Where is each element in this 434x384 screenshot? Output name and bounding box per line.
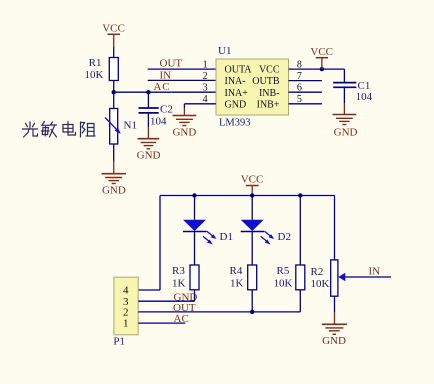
ground GND (below C1)	[333, 103, 358, 139]
svg-text:10K: 10K	[274, 278, 293, 290]
wire rail to D1	[194, 196, 196, 220]
wire IN to U1 pin2	[148, 79, 216, 81]
wire R4 to OUT net	[251, 290, 253, 312]
svg-text:GND: GND	[334, 127, 358, 139]
potentiometer R2	[311, 260, 346, 296]
wire pin 5 stub	[289, 103, 322, 105]
wire R3 to GND net	[194, 290, 196, 301]
junction dot rail D1	[192, 193, 196, 197]
resistor R5	[274, 265, 305, 290]
svg-text:GND: GND	[322, 335, 346, 347]
power VCC (top-left)	[102, 22, 125, 47]
svg-text:2: 2	[123, 307, 129, 319]
svg-text:2: 2	[203, 71, 208, 82]
svg-text:GND: GND	[172, 126, 196, 138]
svg-text:R4: R4	[230, 265, 243, 277]
svg-text:OUT: OUT	[160, 58, 183, 70]
ground GND (below C2)	[137, 127, 161, 161]
svg-text:INB+: INB+	[257, 99, 280, 110]
wire rail to D2	[251, 196, 253, 220]
svg-text:GND: GND	[225, 99, 247, 110]
svg-text:GND: GND	[102, 185, 126, 197]
power VCC (above pin 8)	[310, 46, 333, 69]
svg-text:10K: 10K	[85, 69, 104, 81]
op-amp U1 LM393	[216, 45, 289, 129]
ground GND (below R2)	[322, 312, 347, 347]
wire rail to R2	[334, 196, 336, 260]
wire pin 6 stub	[289, 91, 322, 93]
svg-text:4: 4	[123, 285, 129, 297]
wire R1 bottom to node	[113, 81, 115, 109]
svg-text:P1: P1	[113, 336, 125, 348]
resistor R4	[230, 265, 257, 290]
svg-text:IN: IN	[369, 266, 381, 278]
svg-text:3: 3	[203, 83, 208, 94]
svg-text:OUTA: OUTA	[225, 65, 253, 76]
junction dot pin8/VCC	[320, 67, 324, 71]
svg-text:INB-: INB-	[259, 88, 280, 99]
svg-text:R3: R3	[172, 265, 185, 277]
wire VCC to R1	[113, 47, 115, 58]
junction dot rail R5	[298, 193, 302, 197]
svg-text:AC: AC	[174, 313, 189, 325]
wire R2 to GND	[334, 296, 336, 312]
svg-text:VCC: VCC	[310, 46, 333, 58]
wire U1 pin8 to C1 (VCC net)	[289, 68, 345, 70]
ground GND (below N1)	[102, 161, 126, 197]
connector P1	[113, 277, 138, 347]
wire D2 to R4	[251, 232, 253, 266]
capacitor C2	[139, 92, 173, 127]
wire node to U1 pin3 (AC net)	[114, 91, 216, 93]
svg-text:D2: D2	[278, 231, 291, 243]
wire P1 pin2 OUT net	[138, 311, 300, 313]
svg-text:U1: U1	[218, 45, 231, 57]
LED D2	[241, 220, 291, 245]
svg-text:C2: C2	[160, 104, 173, 116]
svg-text:VCC: VCC	[259, 65, 280, 76]
svg-text:VCC: VCC	[102, 22, 125, 34]
wire R5 to OUT net	[299, 290, 301, 312]
wire P1 pin1 AC net	[138, 322, 185, 324]
wire U1 pin4 to GND	[184, 104, 216, 108]
ground GND (U1 pin4)	[172, 108, 196, 138]
svg-text:INA-: INA-	[225, 76, 246, 87]
wire OUT to U1 pin1	[148, 68, 216, 70]
wire D1 to R3	[194, 232, 196, 266]
svg-text:IN: IN	[160, 69, 172, 81]
junction dot R4/OUT	[250, 310, 254, 314]
wire pin 7 stub	[289, 80, 322, 82]
wire P1 pin3 GND net	[138, 300, 194, 302]
svg-text:104: 104	[356, 91, 373, 103]
svg-text:104: 104	[150, 116, 167, 128]
capacitor C1	[333, 69, 372, 103]
junction dot rail D2	[250, 193, 254, 197]
wire IN to R2 wiper	[345, 276, 391, 278]
svg-text:OUT: OUT	[173, 302, 196, 314]
svg-text:N1: N1	[124, 119, 137, 131]
svg-text:R5: R5	[277, 265, 290, 277]
svg-text:OUTB: OUTB	[252, 76, 280, 87]
junction dot C2 tap	[146, 90, 150, 94]
svg-text:R2: R2	[311, 266, 324, 278]
wire VCC rail	[160, 195, 335, 197]
svg-text:D1: D1	[220, 231, 233, 243]
junction dot node AC	[112, 90, 116, 94]
svg-text:1: 1	[123, 318, 129, 330]
power VCC (bottom section)	[241, 173, 264, 195]
svg-text:10K: 10K	[311, 278, 330, 290]
svg-text:1K: 1K	[230, 278, 244, 290]
label 光敏电阻 (photoresistor, drawn glyphs)	[23, 122, 96, 138]
wire N1 to GND	[113, 144, 115, 161]
photoresistor N1	[105, 109, 137, 145]
svg-text:GND: GND	[137, 149, 161, 161]
resistor R1	[85, 57, 119, 81]
svg-text:R1: R1	[89, 57, 102, 69]
svg-text:AC: AC	[154, 81, 171, 93]
wire rail to R5	[299, 196, 301, 266]
svg-text:1K: 1K	[172, 278, 186, 290]
resistor R3	[172, 265, 199, 290]
svg-text:1: 1	[203, 59, 208, 70]
svg-text:LM393: LM393	[219, 117, 251, 128]
svg-text:VCC: VCC	[241, 173, 264, 185]
svg-text:INA+: INA+	[225, 88, 249, 99]
LED D1	[183, 220, 233, 245]
wire rail to P1 pin4	[138, 196, 160, 291]
